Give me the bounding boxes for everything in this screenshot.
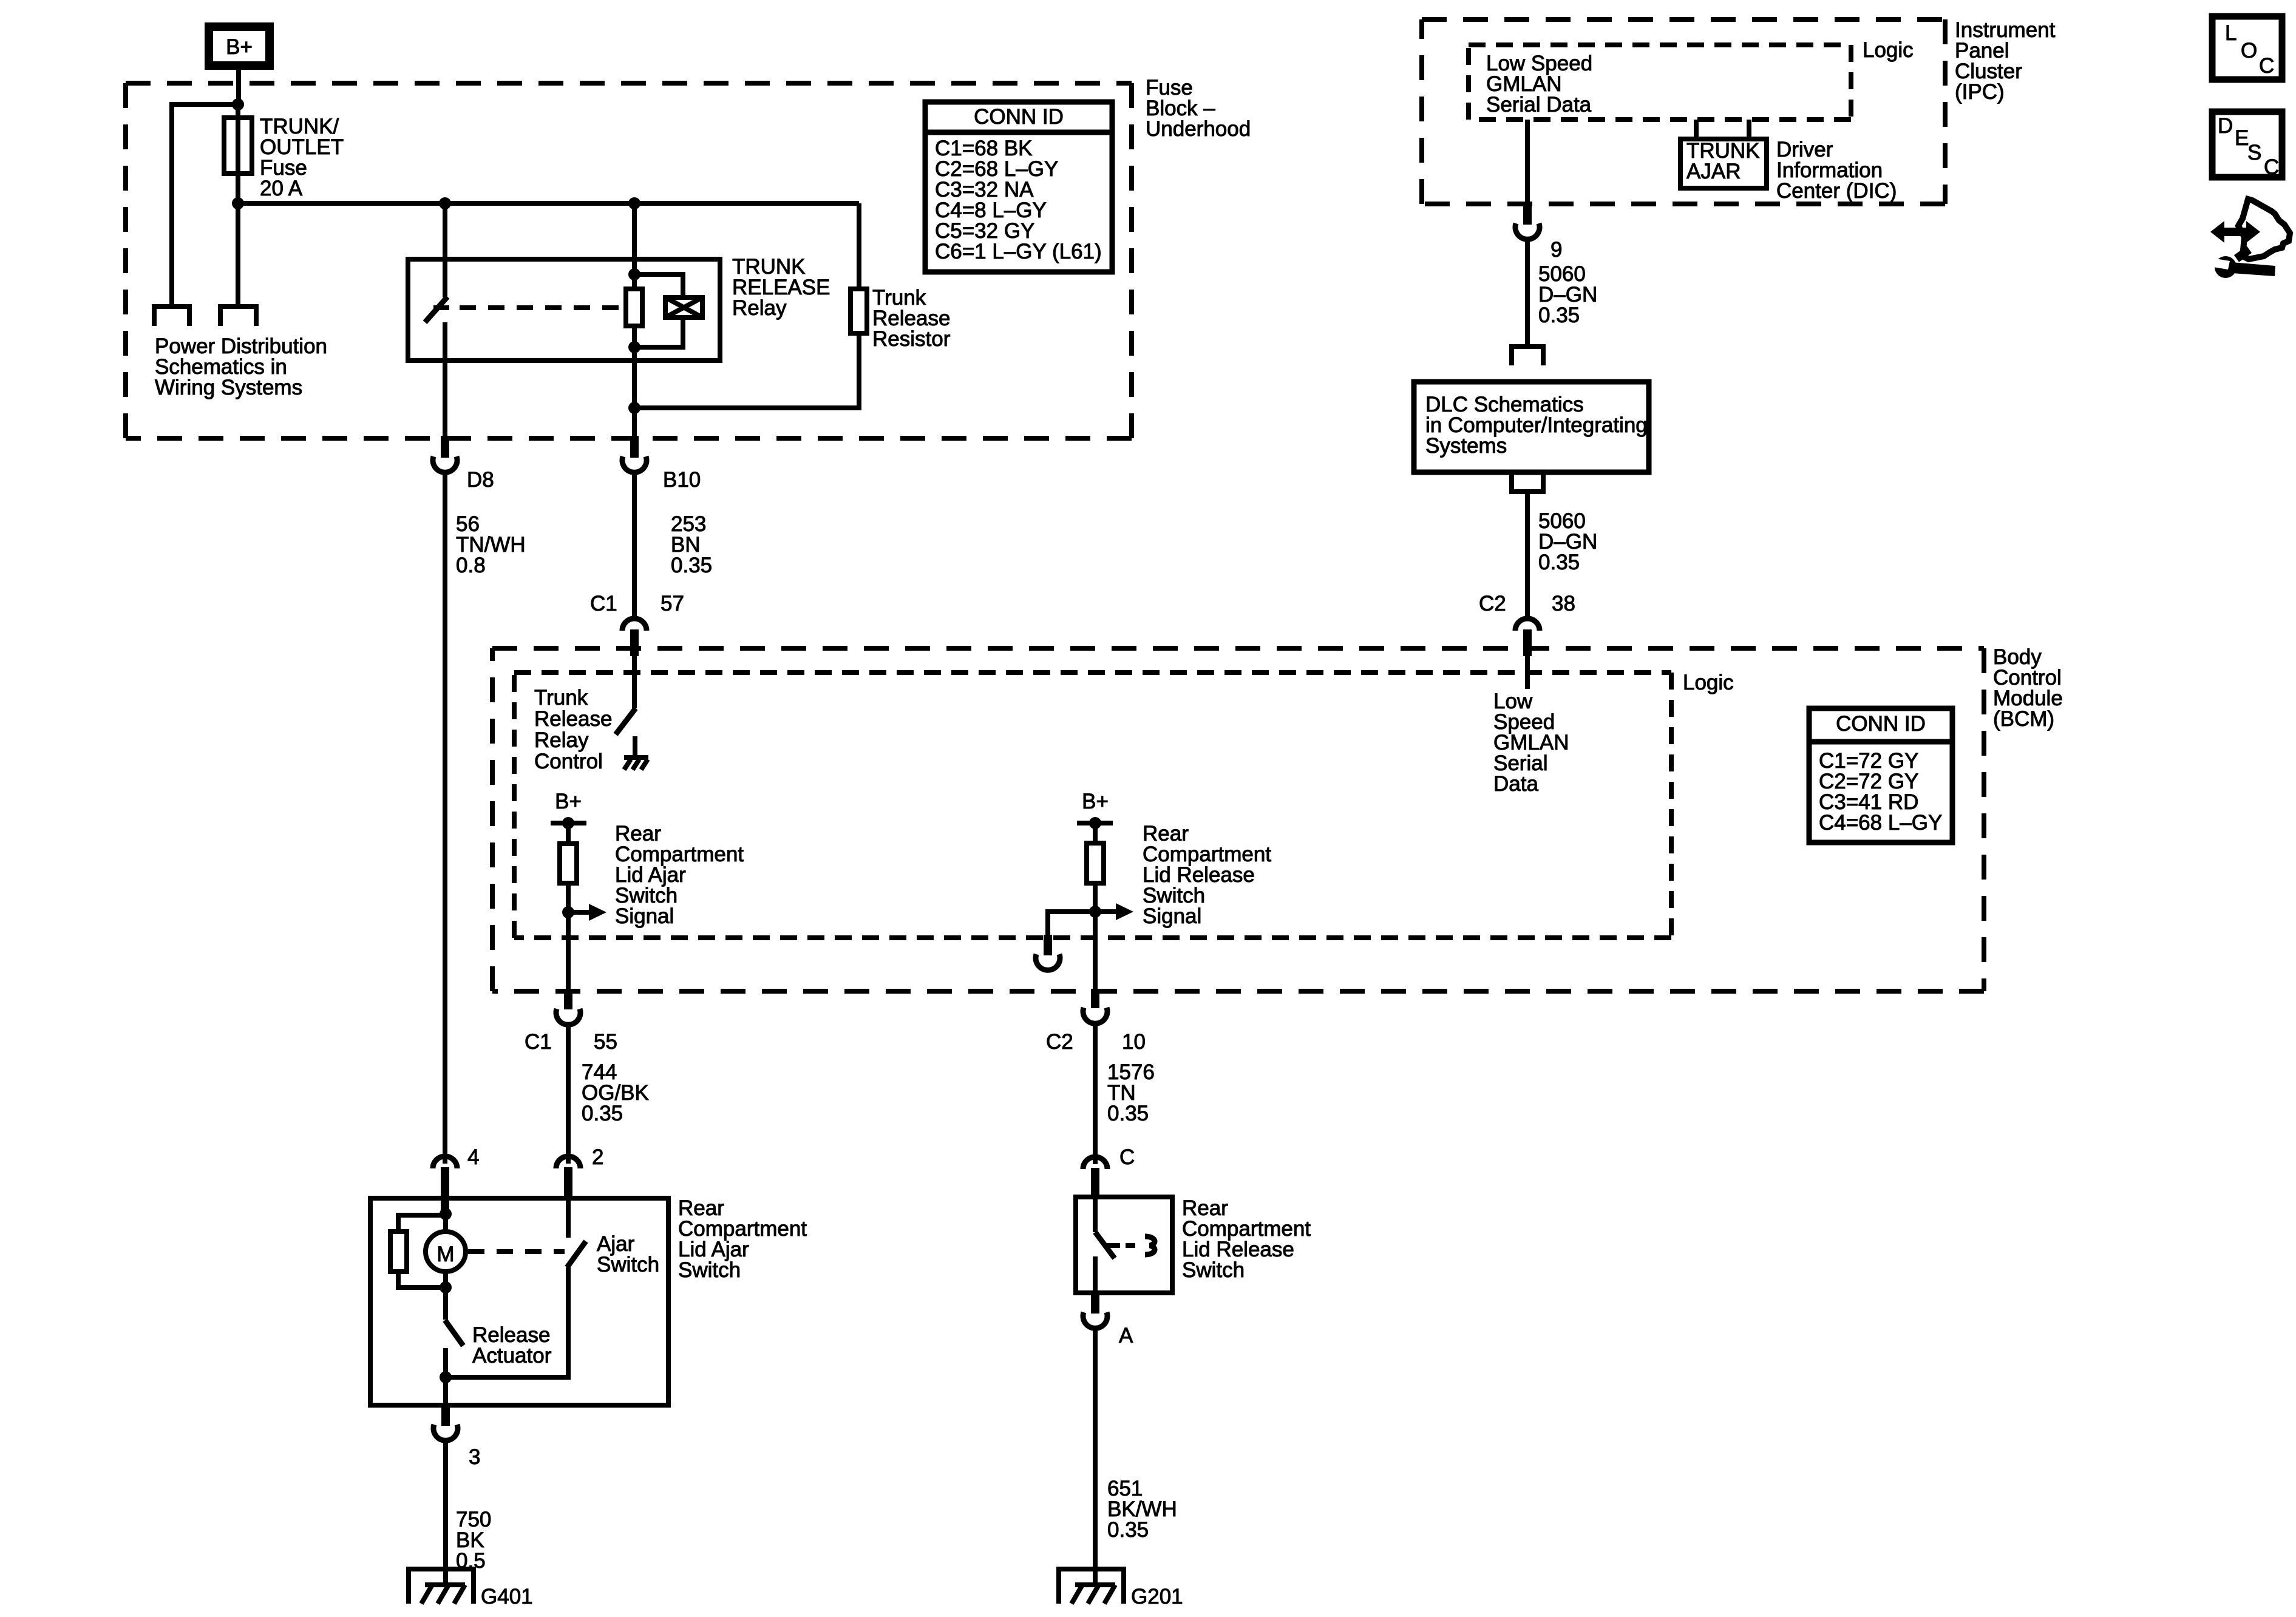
svg-text:Switch: Switch: [1182, 1258, 1245, 1282]
connector C2-38 stub: [1523, 629, 1532, 656]
connector pin2 socket: [556, 1156, 580, 1168]
pullup resistor lid release: [1087, 843, 1104, 883]
wire bus to relay switch contact: [443, 203, 447, 259]
wire coil winding branch top: [634, 274, 683, 297]
node fuse output on bus: [232, 197, 244, 209]
wire 56 TN/WH 0.8: [443, 472, 447, 1164]
svg-text:L: L: [2225, 21, 2237, 45]
svg-text:57: 57: [661, 592, 684, 615]
trunk release relay control switch blade: [616, 708, 636, 734]
label 253 BN 0.35: [671, 512, 712, 577]
wire trunk release relay control: [632, 656, 637, 708]
svg-text:Underhood: Underhood: [1146, 117, 1251, 141]
ground G401: [406, 1569, 476, 1604]
wire B+ bar to pullup resistor right: [1093, 823, 1098, 843]
connector C1-57 socket: [622, 619, 647, 631]
wire motor resistor loop bottom: [398, 1272, 446, 1287]
svg-text:Relay: Relay: [534, 728, 589, 752]
wire B+ bar to pullup resistor: [566, 823, 571, 844]
label 56 TN/WH 0.8: [456, 512, 526, 577]
label Release Actuator: [472, 1323, 552, 1368]
label Low Speed GMLAN Serial Data BCM: [1493, 690, 1569, 796]
svg-text:Logic: Logic: [1683, 671, 1734, 694]
node lid release signal sense: [1089, 906, 1101, 918]
connector pin4 socket: [433, 1156, 457, 1168]
wire resistor return: [634, 333, 859, 408]
label Rear Compartment Lid Ajar Switch: [678, 1196, 807, 1282]
relay linkage dashed: [460, 305, 622, 310]
wire coil resistor bottom lead: [632, 326, 637, 347]
svg-text:C: C: [1119, 1145, 1135, 1169]
svg-text:C4=68 L–GY: C4=68 L–GY: [1819, 811, 1942, 835]
label Rear Compartment Lid Release Switch: [1182, 1196, 1311, 1282]
node motor top: [440, 1208, 452, 1220]
connector C2-10 stub: [1091, 989, 1099, 1008]
node bus to relay coil: [628, 197, 640, 209]
wire motor bottom lead: [443, 1272, 448, 1287]
wire trunk ajar indicator stub left: [1694, 120, 1699, 139]
LOC reference box: [2212, 16, 2282, 80]
wire motor top lead: [443, 1214, 448, 1232]
svg-text:C2: C2: [1046, 1030, 1073, 1054]
svg-text:0.35: 0.35: [1107, 1518, 1149, 1542]
svg-text:G201: G201: [1131, 1585, 1183, 1609]
label Trunk Release Resistor: [872, 286, 951, 351]
lid release switch blade: [1095, 1232, 1115, 1258]
lid release momentary spring symbol: [1145, 1236, 1155, 1255]
relay TRUNK RELEASE box: [408, 259, 720, 361]
IPC logic dashed box: [1469, 45, 1851, 120]
connector D8 stub: [441, 436, 449, 458]
svg-text:C1: C1: [525, 1030, 552, 1054]
TRUNK AJAR indicator box: [1680, 139, 1767, 188]
lid release switch signal arrow: [1095, 903, 1133, 920]
svg-text:C2: C2: [1479, 592, 1506, 615]
connector pin2 stub: [564, 1167, 572, 1201]
connector D8 socket: [433, 456, 457, 472]
lid release switch upper contact: [1093, 1198, 1098, 1232]
node lid ajar signal sense: [562, 906, 574, 918]
relay coil winding symbol: [665, 297, 702, 317]
svg-text:Trunk: Trunk: [534, 686, 588, 710]
connector C1-57 stub: [630, 629, 639, 656]
label Instrument Panel Cluster IPC: [1955, 18, 2056, 104]
node B+ bar lid release: [1089, 817, 1101, 829]
connector C1-55 socket: [556, 1009, 580, 1025]
svg-text:D: D: [2218, 114, 2233, 138]
wire coil resistor top lead: [632, 274, 637, 289]
svg-text:O: O: [2241, 39, 2257, 63]
wire pullup resistor to BCM bottom right: [1093, 883, 1098, 990]
motor linkage dashed: [468, 1249, 565, 1254]
trunk release resistor: [851, 289, 867, 333]
connector IPC serial socket: [1515, 223, 1540, 239]
connector logic elbow stub: [1044, 935, 1052, 955]
svg-text:A: A: [1119, 1324, 1133, 1347]
wire B+ to junction: [236, 70, 241, 104]
wire bus to relay coil: [632, 203, 637, 274]
lid release switch linkage tick: [1106, 1243, 1120, 1248]
wire bus drop to power distribution bracket right: [236, 203, 240, 304]
svg-text:AJAR: AJAR: [1686, 160, 1741, 183]
svg-text:E: E: [2235, 126, 2249, 150]
fuse TRUNK/OUTLET 20A: [224, 118, 252, 174]
svg-text:G401: G401: [481, 1585, 533, 1609]
body control module dashed box: [492, 648, 1984, 991]
node switch return junction: [440, 1371, 452, 1383]
node relay coil top: [628, 268, 640, 280]
bracket from DLC lower: [1509, 472, 1546, 492]
svg-text:C: C: [2259, 54, 2274, 78]
relay switch upper contact: [443, 259, 447, 297]
label DLC Schematics in Computer Integrating Systems: [1425, 393, 1648, 458]
wire 5060 D-GN 0.35 lower: [1525, 492, 1530, 616]
node bus to relay switch: [439, 197, 451, 209]
svg-text:D8: D8: [467, 468, 494, 492]
label Ajar Switch: [597, 1232, 659, 1276]
release actuator switch blade: [445, 1320, 463, 1346]
label Fuse Block - Underhood: [1146, 76, 1251, 141]
wire 1576 TN 0.35: [1093, 1023, 1098, 1164]
svg-text:0.8: 0.8: [456, 554, 486, 577]
wire trunk ajar indicator stub right: [1747, 120, 1751, 139]
connector C1-55 stub: [564, 989, 572, 1009]
svg-text:Switch: Switch: [678, 1258, 741, 1282]
svg-text:0.35: 0.35: [1538, 551, 1580, 574]
wire coil winding branch bottom: [634, 317, 683, 347]
connector pin3 stub: [441, 1404, 450, 1426]
svg-text:M: M: [436, 1242, 454, 1266]
connector pin3 socket: [433, 1425, 458, 1440]
ajar switch blade: [567, 1241, 586, 1267]
label 5060 D-GN 0.35 upper: [1538, 262, 1597, 327]
service icon hand with wrench: [2210, 199, 2290, 278]
svg-text:C1: C1: [590, 592, 617, 615]
lid release switch linkage dash: [1126, 1243, 1135, 1248]
label 651 BK/WH 0.35: [1107, 1477, 1177, 1542]
B+ terminal bar lid ajar: [551, 821, 586, 825]
connector C2-10 socket: [1083, 1008, 1107, 1023]
svg-text:2: 2: [592, 1145, 603, 1169]
label Body Control Module BCM: [1993, 645, 2063, 731]
wire 750 BK 0.5: [443, 1440, 448, 1585]
svg-text:Actuator: Actuator: [472, 1344, 552, 1368]
wire bus to trunk release resistor: [857, 203, 861, 289]
svg-text:Center (DIC): Center (DIC): [1776, 179, 1897, 203]
ajar switch upper contact: [566, 1201, 571, 1238]
instrument panel cluster dashed box: [1422, 19, 1945, 204]
svg-text:B10: B10: [663, 468, 701, 492]
wire relay control to ground: [633, 736, 637, 758]
svg-text:0.35: 0.35: [582, 1102, 623, 1125]
svg-text:Wiring Systems: Wiring Systems: [155, 376, 302, 399]
svg-text:Control: Control: [534, 750, 603, 773]
svg-text:Release: Release: [534, 707, 612, 731]
label 5060 D-GN 0.35 lower: [1538, 509, 1597, 574]
wire actuator lower contact: [443, 1348, 448, 1377]
label Trunk Release Relay Control: [534, 686, 612, 773]
svg-text:0.35: 0.35: [1538, 303, 1580, 327]
label 744 OG/BK 0.35: [582, 1060, 649, 1125]
connector logic elbow socket: [1036, 954, 1060, 970]
connector pinA stub: [1091, 1292, 1099, 1314]
node motor bottom: [440, 1281, 452, 1293]
wire bus feed: [238, 201, 859, 206]
CONN ID table BCM: [1809, 708, 1952, 842]
wire ajar switch lower contact: [446, 1267, 568, 1377]
node coil resistor return: [628, 402, 640, 414]
label 750 BK 0.5: [456, 1508, 491, 1573]
wire motor to actuator contact: [443, 1287, 448, 1320]
relay switch lower contact wire: [443, 322, 447, 438]
connector pin4 stub: [441, 1167, 449, 1214]
node B+ branch junction: [232, 98, 244, 110]
wire lid release logic elbow: [1048, 912, 1095, 935]
svg-text:0.35: 0.35: [671, 554, 712, 577]
svg-text:0.35: 0.35: [1107, 1102, 1149, 1125]
node B+ bar lid ajar: [562, 817, 574, 829]
ground logic internal: [624, 758, 648, 770]
svg-text:55: 55: [594, 1030, 617, 1054]
svg-text:Relay: Relay: [732, 296, 787, 320]
wire motor resistor loop top: [398, 1215, 446, 1232]
connector pinC socket: [1083, 1157, 1107, 1169]
connector B10 socket: [622, 456, 647, 472]
svg-text:C6=1 L–GY (L61): C6=1 L–GY (L61): [935, 240, 1102, 263]
wire junction through fuse to bus: [236, 104, 240, 203]
relay switch linkage tick: [433, 305, 449, 310]
DESC reference box: [2212, 112, 2282, 179]
lid release switch lower contact: [1093, 1256, 1098, 1293]
ground G201: [1056, 1569, 1126, 1604]
connector C2-38 socket: [1515, 619, 1540, 631]
svg-text:4: 4: [467, 1145, 479, 1169]
svg-text:Data: Data: [1493, 772, 1538, 796]
wire 651 BK/WH 0.35: [1093, 1328, 1098, 1585]
wire 744 OG/BK 0.35: [566, 1025, 571, 1164]
svg-text:3: 3: [469, 1445, 480, 1469]
connector B10 stub: [630, 436, 639, 458]
svg-text:B+: B+: [226, 35, 253, 59]
lid ajar switch signal arrow: [568, 904, 606, 921]
wire branch left to power distribution: [172, 104, 240, 304]
wire relay coil to resistor return: [632, 347, 637, 438]
svg-text:(BCM): (BCM): [1993, 707, 2054, 731]
rear compartment lid ajar switch box: [370, 1198, 668, 1405]
relay internal resistor: [626, 289, 642, 326]
pullup resistor lid ajar: [560, 844, 577, 883]
svg-text:Signal: Signal: [615, 904, 674, 928]
svg-text:Logic: Logic: [1863, 38, 1914, 62]
label fuse TRUNK/OUTLET Fuse 20 A: [260, 115, 344, 200]
label Driver Information Center DIC: [1776, 138, 1897, 203]
svg-text:Serial Data: Serial Data: [1486, 93, 1592, 117]
wire 5060 D-GN 0.35 upper: [1525, 239, 1530, 345]
label Rear Compartment Lid Release Switch Signal: [1143, 822, 1271, 928]
BCM logic dashed box: [514, 673, 1671, 938]
svg-text:Systems: Systems: [1425, 434, 1507, 458]
power distribution bracket right: [218, 307, 259, 326]
battery feed B+ symbol box: [209, 27, 270, 66]
wire return to pin 3: [443, 1377, 448, 1405]
DLC schematics reference box: [1414, 382, 1649, 472]
svg-text:Switch: Switch: [597, 1253, 659, 1276]
label TRUNK AJAR: [1686, 139, 1760, 183]
release actuator motor: [426, 1232, 466, 1272]
label 1576 TN 0.35: [1107, 1060, 1155, 1125]
B+ terminal bar lid release: [1077, 821, 1113, 825]
wire pullup resistor to BCM bottom: [566, 883, 571, 990]
svg-text:38: 38: [1552, 592, 1575, 615]
svg-text:(IPC): (IPC): [1955, 80, 2005, 104]
rear compartment lid release switch box: [1076, 1197, 1172, 1293]
svg-text:20 A: 20 A: [260, 177, 303, 200]
svg-text:Signal: Signal: [1143, 904, 1201, 928]
power distribution bracket left: [152, 307, 192, 326]
svg-text:9: 9: [1550, 238, 1562, 262]
svg-text:C: C: [2264, 155, 2279, 179]
svg-text:10: 10: [1122, 1030, 1146, 1054]
bracket to DLC upper: [1509, 347, 1546, 365]
label Power Distribution Schematics in Wiring Systems: [155, 334, 327, 399]
label Rear Compartment Lid Ajar Switch Signal: [615, 822, 744, 928]
label TRUNK RELEASE Relay: [732, 255, 830, 320]
wire 253 BN 0.35: [632, 472, 637, 616]
svg-text:Resistor: Resistor: [872, 327, 951, 351]
svg-text:CONN ID: CONN ID: [974, 105, 1064, 129]
wire IPC serial data: [1525, 120, 1530, 204]
wire serial into BCM logic: [1525, 656, 1530, 689]
svg-text:B+: B+: [1082, 790, 1109, 813]
motor shunt resistor: [390, 1232, 407, 1272]
node relay coil bottom: [628, 341, 640, 353]
connector pinC stub: [1091, 1168, 1099, 1198]
connector IPC serial stub: [1523, 202, 1532, 225]
label Low Speed GMLAN Serial Data IPC: [1486, 52, 1592, 117]
connector pinA socket: [1083, 1312, 1107, 1328]
fuse block underhood dashed box: [126, 83, 1132, 438]
svg-text:S: S: [2247, 141, 2261, 164]
relay switch blade: [425, 297, 447, 322]
CONN ID table fuse block: [925, 102, 1112, 272]
svg-text:B+: B+: [555, 790, 582, 813]
svg-text:CONN ID: CONN ID: [1836, 712, 1926, 736]
